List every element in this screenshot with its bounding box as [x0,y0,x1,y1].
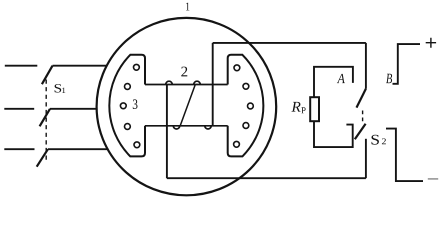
wire contact to negative terminal [386,129,423,182]
label S2 switch S [372,135,379,145]
minus terminal [428,178,438,180]
wire switch S2 pole 1 to bottom bus [365,139,367,178]
switch S2 linkage (dashed) [362,111,364,124]
wire field lead right (up to top bus) [212,43,214,126]
switch S1 blade pole 3 [37,149,48,167]
label 1 stator [186,3,189,11]
rotor pole left (salient pole) [109,55,145,157]
label 3 pole winding [133,99,138,109]
wire resistor bottom to contact post [314,121,353,147]
label RP subscript P [301,107,305,113]
wire top bus to switch [213,42,366,44]
switch S1 blade pole 1 [42,66,53,85]
field coil bump bottom 2 [205,126,211,129]
winding conductor dots right pole [234,65,254,147]
field coil bump bottom 1 [173,126,179,129]
switch S2 blade lower [355,124,366,139]
plus terminal [426,38,436,48]
field coil bump top 1 [166,81,173,84]
stator frame circle (machine body) [97,18,277,195]
switch S2 blade upper [357,89,366,108]
label 2 field winding [181,67,187,77]
wire positive terminal to contact B [393,44,421,84]
field coil diagonal connector [180,85,195,126]
field winding bottom line [145,125,228,127]
field coil bump top 2 [194,81,201,84]
winding conductor dots left pole [120,64,139,147]
field winding top line [145,84,228,86]
wire field lead left (down to bottom bus) [166,85,168,179]
label S1 subscript 1 [62,88,65,93]
wire phase W to stator [48,148,109,150]
switch S1 blade pole 2 [40,109,50,127]
wire phase U to stator [53,65,108,67]
wire from top bus down to switch S2 pole 1 [365,43,367,89]
label B contact [386,74,392,83]
wire bottom bus to switch [167,177,366,179]
rotor pole right (salient pole) [228,55,264,157]
label S1 switch S [55,84,62,92]
label S2 subscript 2 [382,138,386,144]
wire phase V to stator [50,108,98,110]
resistor RP box [310,97,319,121]
wire phase line V (middle left) [4,108,34,110]
label RP resistor R [291,102,300,112]
wire phase line U (top left) [5,65,38,67]
wire phase line W (bottom left) [4,148,34,150]
label A contact [337,74,345,83]
wire branch A (over resistor) [314,67,353,97]
switch S1 linkage (dashed) [45,80,47,163]
